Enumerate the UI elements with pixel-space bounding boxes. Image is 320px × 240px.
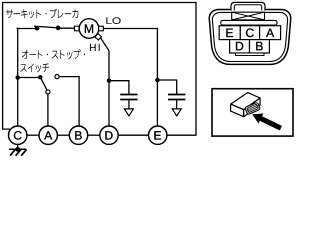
terminal B bbox=[69, 126, 87, 144]
label auto stop switch line1 (Japanese) bbox=[22, 49, 85, 59]
connector shelf bar bbox=[221, 20, 277, 25]
wire breaker to motor segment bbox=[58, 27, 75, 29]
switch blade bbox=[40, 77, 47, 90]
capacitor C2 stub bbox=[176, 100, 178, 109]
connector bottom lip bbox=[236, 53, 265, 56]
wire breaker horizontal left segment bbox=[17, 28, 37, 30]
circuit breaker contact dot right bbox=[56, 26, 61, 31]
connector icon front face bbox=[231, 104, 244, 117]
label auto stop switch line2 (Japanese) bbox=[20, 63, 49, 72]
wire switch moving contact to A bbox=[47, 94, 49, 126]
arrow ground under C1 bbox=[124, 109, 133, 116]
wire LO from motor to E bbox=[103, 29, 157, 127]
wire B to D bbox=[88, 134, 100, 136]
wire switch feed bbox=[18, 77, 41, 79]
connector cavity D bbox=[230, 40, 250, 53]
arrow pointing to connector icon bbox=[252, 114, 282, 131]
capacitor C1 plates bbox=[120, 95, 137, 100]
terminal A bbox=[39, 126, 57, 144]
connector icon end face bbox=[244, 98, 260, 117]
wire breaker feed vertical bbox=[17, 29, 19, 127]
ground hatches bbox=[10, 150, 26, 156]
wire A to B bbox=[57, 134, 69, 136]
wire capacitor branch at D bbox=[109, 81, 129, 95]
ground junction dot bbox=[15, 147, 20, 152]
label LO bbox=[106, 17, 120, 24]
wire main loop from C up across top down to E bbox=[3, 3, 196, 136]
switch fixed contact open circle bbox=[55, 75, 59, 79]
motor right terminal bbox=[99, 26, 104, 31]
wire capacitor branch at E bbox=[157, 80, 176, 94]
capacitor C1 stub bbox=[128, 100, 130, 109]
capacitor C2 plates bbox=[168, 95, 185, 100]
terminal D bbox=[100, 126, 118, 144]
motor label M bbox=[85, 24, 93, 33]
ground stub under C bbox=[17, 144, 19, 149]
wire HI from motor to D bbox=[101, 38, 109, 126]
terminal C bbox=[9, 126, 27, 144]
junction dot capacitor branch at D bbox=[107, 78, 112, 83]
terminal E bbox=[149, 126, 167, 144]
connector cavity B bbox=[250, 40, 270, 53]
connector cavity E bbox=[219, 26, 240, 40]
inset box frame bbox=[212, 89, 293, 136]
connector J1 housing outer bbox=[209, 10, 290, 65]
wire C to A bbox=[27, 134, 39, 136]
circuit breaker blade bbox=[34, 26, 58, 28]
circuit breaker contact dot left bbox=[35, 26, 40, 31]
junction dot switch pivot bbox=[38, 75, 43, 80]
arrow ground under C2 bbox=[172, 109, 181, 116]
connector lock window with X brace bbox=[232, 12, 265, 20]
label circuit breaker (Japanese) bbox=[6, 9, 78, 19]
junction dot capacitor branch at E bbox=[155, 78, 160, 83]
junction dot switch feed bbox=[15, 75, 20, 80]
ground bar bbox=[9, 148, 27, 150]
motor left terminal bbox=[74, 26, 79, 31]
connector latch outer bbox=[231, 2, 265, 10]
connector icon top face bbox=[231, 93, 261, 110]
connector cavity C bbox=[240, 26, 259, 40]
connector icon socket bbox=[245, 102, 261, 115]
connector J1 housing inner bbox=[212, 12, 287, 61]
wire switch output to B bbox=[59, 77, 79, 127]
connector latch inner bbox=[234, 5, 261, 11]
wire D to E bbox=[118, 134, 148, 136]
motor M1 body bbox=[79, 19, 99, 39]
switch moving contact open circle bbox=[46, 90, 50, 94]
label HI bbox=[90, 44, 100, 51]
motor bottom terminal bbox=[95, 34, 101, 40]
connector cavity A bbox=[260, 26, 281, 40]
